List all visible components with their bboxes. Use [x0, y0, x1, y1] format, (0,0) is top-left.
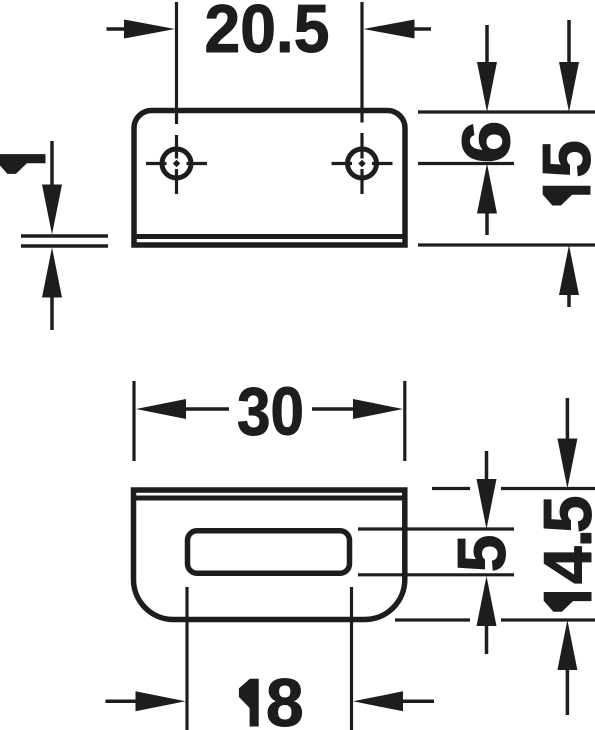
dim 1 top arrow shaft	[50, 141, 54, 185]
dim 30 right arrowhead	[353, 399, 403, 419]
dim 18 left extension line	[185, 587, 188, 730]
dim 18 right extension line	[350, 587, 353, 730]
dim 5 bottom arrow shaft	[485, 626, 489, 655]
svg-text:30: 30	[237, 374, 304, 450]
dim 14.5 top arrowhead	[557, 439, 577, 489]
dim 20.5 left arrowhead	[124, 20, 175, 39]
dim 6 bottom arrowhead	[477, 164, 497, 214]
dim 5 top arrowhead	[477, 479, 497, 529]
dim 18 text	[239, 679, 258, 726]
hole H1 circle	[162, 149, 191, 178]
dim 15 top arrow shaft	[567, 20, 571, 63]
dim 18 right arrowhead	[353, 691, 403, 711]
dim 20.5 right arrowhead	[364, 20, 415, 39]
dim 14.5 digit 1	[544, 593, 591, 612]
svg-text:.: .	[530, 529, 595, 548]
dim 30 left arrowhead	[136, 399, 186, 419]
svg-text:5: 5	[530, 495, 595, 533]
dim 14.5 bottom extension line	[395, 618, 595, 621]
dim 1 bottom arrowhead	[42, 248, 62, 298]
dim 5 top extension line	[358, 527, 514, 530]
dim 5 bottom extension line	[358, 573, 514, 576]
top view extension line at hole centerline (right side)	[418, 162, 514, 165]
dim 15 bottom arrowhead	[559, 245, 579, 295]
dim 15 digit 1	[543, 186, 590, 205]
hole H2 circle	[348, 149, 377, 178]
hole H1 center dot	[173, 160, 180, 167]
dim 1 text	[0, 155, 45, 174]
dim 1 extension lines (left flange)	[21, 236, 108, 246]
hole H1 centerline horizontal	[146, 162, 207, 165]
plate bottom view outline	[134, 490, 405, 620]
dim 20.5 left arrow shaft	[107, 27, 127, 31]
hole H2 center dot	[358, 160, 365, 167]
dim 6 top arrowhead	[477, 62, 497, 112]
plate top view outline	[134, 111, 405, 246]
dim 14.5 top extension line	[432, 487, 595, 490]
dim 30 left extension line	[132, 381, 135, 461]
dim 14.5 bottom arrow shaft	[566, 670, 570, 716]
dim 18 right arrow shaft	[403, 700, 435, 704]
dim 6 bottom arrow shaft	[485, 213, 489, 235]
dim 1 top arrowhead	[42, 185, 62, 235]
svg-text:8: 8	[266, 665, 304, 730]
dim 15 top arrowhead	[559, 62, 579, 112]
dim 18 left arrowhead	[136, 691, 186, 711]
svg-text:6: 6	[449, 121, 525, 164]
dim 18 left arrow shaft	[106, 700, 137, 704]
dim 30 right extension line	[403, 381, 406, 461]
dim 20.5 right arrow shaft	[413, 27, 431, 31]
dim 15 bottom arrow shaft	[567, 295, 571, 308]
svg-text:20.5: 20.5	[205, 0, 330, 67]
dim 6 top arrow shaft	[485, 25, 489, 63]
dim 30 text halo	[229, 382, 312, 437]
plate bottom view second top line	[134, 496, 405, 501]
dim 5 bottom arrowhead	[477, 576, 497, 626]
dim 30 dimension line	[186, 407, 354, 411]
hole H2 centerline horizontal	[332, 162, 393, 165]
dim 5 top arrow shaft	[485, 451, 489, 480]
top view extension line at plate top (right side)	[418, 110, 595, 113]
dim 1 bottom arrow shaft	[50, 297, 54, 330]
hole H1 centerline vertical / 20.5 left extension	[175, 2, 178, 194]
svg-text:5: 5	[444, 535, 520, 573]
dim 14.5 top arrow shaft	[566, 398, 570, 439]
slot	[188, 531, 350, 573]
svg-text:5: 5	[529, 140, 595, 178]
hole H2 centerline vertical / 20.5 right extension	[360, 2, 363, 194]
plate top view bend line	[134, 234, 405, 239]
svg-text:4: 4	[530, 546, 595, 584]
top view extension line at plate bottom (right side)	[418, 243, 595, 246]
dim 14.5 bottom arrowhead	[557, 620, 577, 670]
